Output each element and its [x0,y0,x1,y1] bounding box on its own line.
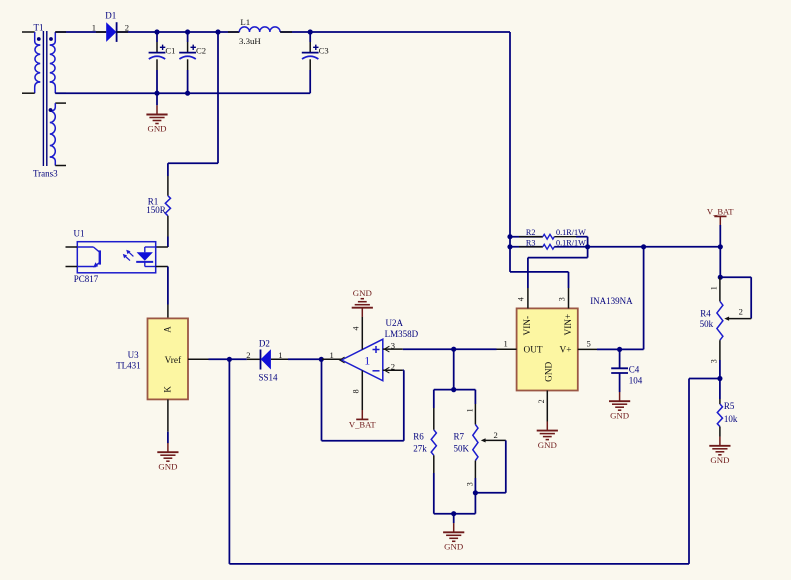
svg-text:50k: 50k [700,319,714,329]
svg-text:5: 5 [587,339,591,349]
svg-text:SS14: SS14 [259,372,279,382]
svg-text:D1: D1 [105,10,116,20]
svg-text:GND: GND [158,461,177,471]
svg-text:C3: C3 [319,45,329,55]
svg-text:OUT: OUT [524,346,543,356]
svg-text:GND: GND [710,455,729,465]
svg-text:1: 1 [364,354,370,368]
svg-text:K: K [162,386,172,393]
svg-text:1: 1 [709,286,718,290]
svg-text:GND: GND [545,361,555,381]
svg-text:V_BAT: V_BAT [707,207,734,217]
svg-text:VIN+: VIN+ [564,314,574,336]
svg-text:2: 2 [739,307,743,317]
svg-text:GND: GND [444,542,463,552]
svg-text:C2: C2 [196,45,206,55]
svg-text:0.1R/1W: 0.1R/1W [556,228,586,237]
svg-text:Vref: Vref [165,355,182,366]
svg-text:0.1R/1W: 0.1R/1W [556,238,586,247]
svg-text:R4: R4 [700,308,711,318]
svg-text:D2: D2 [259,338,270,348]
svg-text:50K: 50K [454,444,470,454]
svg-text:C4: C4 [629,365,640,375]
svg-text:TL431: TL431 [116,361,141,371]
svg-text:3: 3 [557,297,566,301]
svg-text:150R: 150R [146,205,166,215]
svg-text:3: 3 [465,482,474,486]
svg-text:T1: T1 [34,23,44,33]
svg-text:1: 1 [504,339,508,349]
svg-text:2: 2 [391,361,395,371]
svg-text:27k: 27k [413,444,427,454]
svg-text:R7: R7 [454,432,465,442]
svg-text:3: 3 [391,340,395,350]
svg-text:U3: U3 [128,350,139,360]
svg-text:GND: GND [353,288,372,298]
svg-text:2: 2 [537,399,546,403]
svg-text:V_BAT: V_BAT [349,419,376,429]
svg-text:R6: R6 [413,432,424,442]
svg-text:INA139NA: INA139NA [590,296,633,306]
svg-text:104: 104 [629,376,643,386]
svg-text:Trans3: Trans3 [33,169,58,179]
svg-text:V+: V+ [560,346,572,356]
svg-text:1: 1 [278,350,282,360]
svg-text:R5: R5 [724,401,735,411]
svg-text:1: 1 [465,408,474,412]
svg-text:U2A: U2A [386,318,404,328]
svg-text:2: 2 [125,22,129,32]
svg-text:C1: C1 [165,45,175,55]
svg-text:4: 4 [516,297,525,301]
svg-text:2: 2 [246,350,250,360]
svg-text:4: 4 [352,327,361,331]
svg-text:PC817: PC817 [74,274,99,284]
svg-text:3: 3 [709,359,718,363]
svg-text:R2: R2 [526,228,536,237]
svg-text:L1: L1 [240,17,250,27]
svg-text:A: A [162,326,172,333]
svg-text:LM358D: LM358D [385,329,419,339]
svg-text:GND: GND [610,410,629,420]
svg-text:3.3uH: 3.3uH [239,36,261,46]
svg-text:1: 1 [92,22,96,32]
svg-text:U1: U1 [74,229,85,239]
svg-text:GND: GND [147,124,166,134]
svg-text:1: 1 [330,350,334,360]
svg-text:8: 8 [352,389,361,393]
svg-text:GND: GND [538,440,557,450]
svg-text:R3: R3 [526,238,536,247]
svg-text:2: 2 [494,430,498,440]
svg-text:10k: 10k [724,414,738,424]
svg-text:VIN-: VIN- [523,316,533,336]
